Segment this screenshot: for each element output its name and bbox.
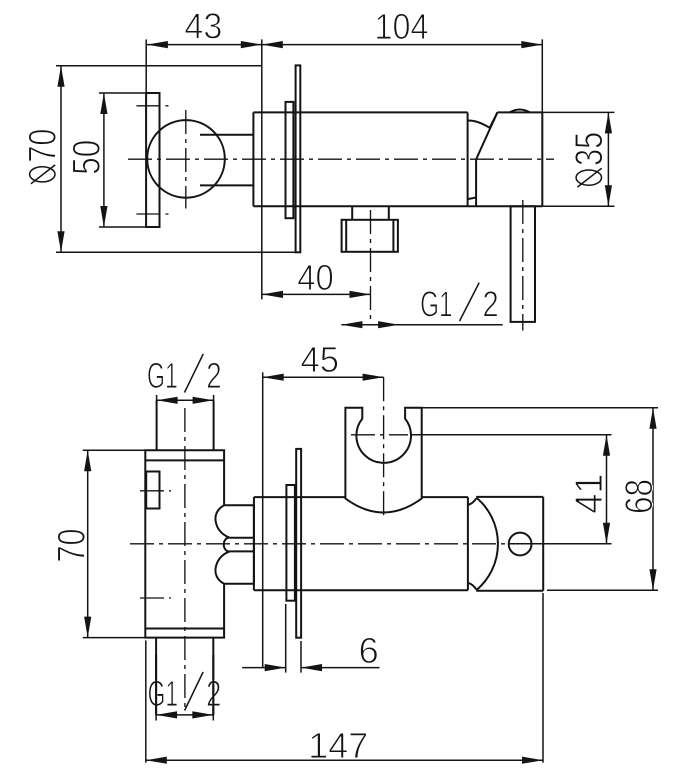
svg-text:147: 147 (308, 725, 368, 766)
svg-text:6: 6 (358, 630, 378, 671)
svg-text:104: 104 (375, 6, 429, 47)
svg-text:2: 2 (483, 284, 499, 325)
svg-text:45: 45 (301, 339, 340, 380)
svg-text:68: 68 (618, 479, 661, 514)
svg-text:G1: G1 (420, 284, 452, 325)
svg-text:43: 43 (184, 6, 222, 47)
svg-text:2: 2 (206, 355, 221, 396)
svg-text:70: 70 (51, 529, 94, 563)
svg-text:41: 41 (568, 474, 611, 514)
svg-text:G1: G1 (148, 673, 178, 714)
svg-text:G1: G1 (147, 355, 178, 396)
svg-text:35: 35 (568, 132, 611, 166)
svg-text:70: 70 (22, 129, 65, 163)
svg-text:50: 50 (66, 140, 109, 175)
svg-text:40: 40 (297, 257, 334, 298)
